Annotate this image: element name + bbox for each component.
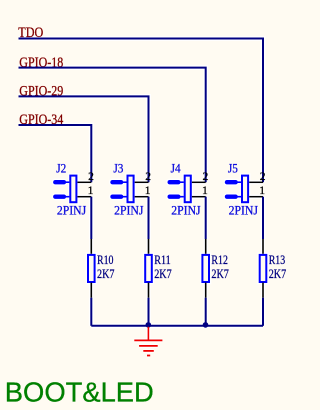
J3 body [128, 176, 134, 203]
wire J5 pin 1 to R13 [262, 197, 264, 239]
ground bar 2 [139, 345, 158, 347]
svg-text:2K7: 2K7 [269, 267, 287, 281]
R10 top lead [90, 239, 92, 254]
svg-text:2PINJ: 2PINJ [57, 204, 86, 218]
R11 bottom lead [148, 283, 150, 298]
J4 body [185, 176, 191, 203]
R13 bottom lead [262, 283, 264, 298]
svg-text:1: 1 [88, 184, 94, 197]
J5 pin 1 lead [249, 195, 263, 199]
ground stem [147, 327, 149, 341]
J5 pin 2 stub [227, 179, 236, 186]
R12 top lead [205, 239, 207, 254]
svg-text:2PINJ: 2PINJ [114, 204, 143, 218]
J2 pin 2 stub [55, 179, 64, 186]
svg-text:2: 2 [203, 170, 209, 183]
svg-text:2K7: 2K7 [154, 267, 172, 281]
J4 pin 1 stub [170, 193, 179, 200]
svg-text:2: 2 [145, 170, 151, 183]
R11 top lead [146, 239, 150, 254]
svg-text:J2: J2 [56, 161, 66, 175]
R11 body [145, 255, 152, 282]
J3 pin 2 lead [135, 181, 149, 183]
J3 pin 1 stub [113, 193, 122, 200]
svg-text:R11: R11 [154, 253, 171, 267]
wire R10 to ground rail [90, 298, 92, 326]
resistor R13 [260, 239, 287, 298]
J5 body [242, 176, 248, 203]
J2 body [70, 176, 76, 203]
J2 pin 2 lead [78, 181, 92, 183]
R10 body [88, 255, 95, 282]
wire ground rail [91, 325, 263, 327]
svg-text:2: 2 [260, 170, 266, 183]
R13 body [260, 255, 267, 282]
J5 pin 1 lead [249, 196, 263, 198]
svg-text:R12: R12 [211, 253, 228, 267]
wire R11 to ground rail [148, 298, 150, 326]
J2 body [70, 176, 76, 203]
svg-text:J5: J5 [228, 161, 238, 175]
R13 top lead [262, 239, 264, 254]
svg-text:2K7: 2K7 [97, 267, 115, 281]
ground bar 4 [147, 355, 150, 357]
R12 bottom lead [205, 283, 207, 298]
J4 pin 2 lead [192, 181, 206, 183]
J3 body [128, 176, 134, 203]
R11 top lead [148, 239, 150, 254]
wire GPIO-29 to J3 pin 2 [19, 96, 149, 182]
svg-text:BOOT&LED: BOOT&LED [5, 377, 154, 408]
wire R13 to ground rail [262, 298, 264, 326]
wire GPIO-34 to J2 pin 2 [19, 125, 92, 182]
jumper J5 [227, 161, 266, 217]
J2 pin 2 lead [78, 180, 92, 184]
svg-text:2: 2 [88, 170, 94, 183]
svg-text:R13: R13 [269, 253, 286, 267]
wire TDO to J5 pin 2 [19, 39, 264, 183]
J4 body [185, 176, 191, 203]
ground bar 3 [143, 350, 154, 352]
R11 body [145, 255, 152, 282]
R12 body [202, 255, 209, 282]
wire J3 pin 1 to R11 [148, 197, 150, 239]
svg-text:2PINJ: 2PINJ [229, 204, 258, 218]
jumper J3 [113, 161, 152, 217]
R10 body [88, 255, 95, 282]
J5 pin 2 lead [249, 180, 263, 184]
jumper J4 [170, 161, 209, 217]
R12 top lead [204, 239, 208, 254]
white sharpening halo under wires [19, 39, 267, 356]
R13 top lead [261, 239, 265, 254]
svg-text:1: 1 [259, 184, 265, 197]
svg-text:2K7: 2K7 [211, 267, 229, 281]
resistor R12 [202, 239, 229, 298]
R10 bottom lead [90, 283, 92, 298]
J5 pin 2 lead [249, 181, 263, 183]
J3 pin 1 lead [135, 196, 149, 198]
J4 pin 1 lead [192, 196, 206, 198]
R12 bottom lead [204, 283, 208, 298]
junction dot at R11 / rail [146, 322, 152, 328]
wire J2 pin 1 to R10 [90, 197, 92, 239]
J4 pin 2 stub [170, 179, 179, 186]
svg-text:2PINJ: 2PINJ [171, 204, 200, 218]
R10 top lead [89, 239, 93, 254]
J5 pin 1 stub [227, 193, 236, 200]
R10 bottom lead [89, 283, 93, 298]
svg-text:1: 1 [145, 184, 151, 197]
R11 bottom lead [146, 283, 150, 298]
resistor R11 [145, 239, 172, 298]
wire R12 to ground rail [205, 298, 207, 326]
wire J4 pin 1 to R12 [205, 197, 207, 239]
J5 body [242, 176, 248, 203]
svg-text:J3: J3 [113, 161, 123, 175]
R13 bottom lead [261, 283, 265, 298]
J2 pin 1 lead [78, 195, 92, 199]
J2 pin 1 stub [55, 193, 64, 200]
svg-text:R10: R10 [97, 253, 114, 267]
svg-text:J4: J4 [171, 161, 182, 175]
ground bar 1 [134, 339, 162, 341]
J3 pin 2 lead [135, 180, 149, 184]
J3 pin 2 stub [113, 179, 122, 186]
J3 pin 1 lead [135, 195, 149, 199]
jumper J2 [55, 161, 94, 217]
R13 body [260, 255, 267, 282]
ground [134, 327, 162, 356]
wire GPIO-18 to J4 pin 2 [19, 68, 206, 183]
J2 pin 1 lead [78, 196, 92, 198]
svg-text:1: 1 [202, 184, 208, 197]
resistor R10 [88, 239, 115, 298]
junction dot at R12 / rail [203, 322, 209, 328]
